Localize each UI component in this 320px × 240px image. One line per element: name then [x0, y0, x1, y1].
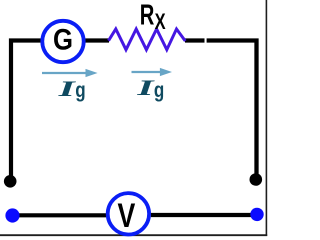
svg-text:G: G: [53, 24, 73, 57]
label Ig (left): [57, 76, 85, 101]
voltmeter V: [108, 193, 149, 235]
label Rx: [140, 0, 166, 34]
svg-text:I: I: [136, 75, 155, 100]
current arrow Ig (right): [132, 68, 173, 76]
node: left branch junction (black dot): [4, 175, 17, 188]
svg-text:V: V: [118, 197, 136, 235]
wire: top-left horizontal and left vertical branch: [11, 41, 41, 180]
node: voltmeter left terminal (blue dot): [5, 208, 19, 222]
svg-text:g: g: [75, 78, 85, 102]
image frame shadow (right): [265, 0, 267, 236]
wire: bottom right (voltmeter to terminal): [151, 213, 256, 217]
wire: galvanometer to resistor Rx: [85, 38, 109, 42]
node: voltmeter right terminal (blue dot): [250, 208, 263, 221]
wire: resistor Rx to gap: [185, 38, 205, 42]
label Ig (right): [136, 75, 164, 101]
node: right branch junction (black dot): [250, 173, 263, 186]
svg-text:g: g: [154, 78, 164, 102]
image frame shadow (bottom): [0, 234, 267, 236]
wire: top-right horizontal and right vertical branch: [207, 41, 257, 178]
wire: bottom left (terminal to voltmeter): [13, 213, 107, 217]
galvanometer G: [42, 21, 83, 62]
svg-text:R: R: [140, 0, 155, 32]
svg-text:I: I: [57, 76, 76, 101]
svg-text:X: X: [155, 9, 166, 34]
current arrow Ig (left): [42, 69, 98, 77]
resistor Rx (zigzag): [109, 29, 186, 50]
